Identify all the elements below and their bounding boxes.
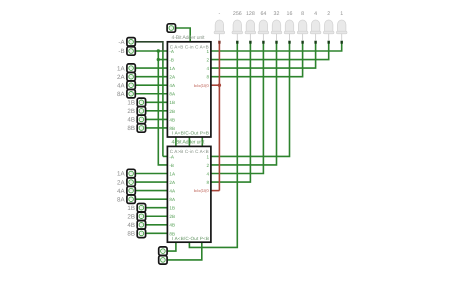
svg-text:2A: 2A xyxy=(169,75,176,80)
svg-text:2B: 2B xyxy=(169,214,175,219)
svg-text:64: 64 xyxy=(260,11,266,17)
pin 8A xyxy=(127,90,135,98)
svg-text:2: 2 xyxy=(206,163,209,168)
svg-text:2: 2 xyxy=(327,11,330,17)
junction -B/U1-B xyxy=(157,58,160,61)
pin 8A xyxy=(127,195,135,203)
svg-text:4A: 4A xyxy=(117,82,125,89)
svg-text:4A: 4A xyxy=(117,188,125,195)
svg-text:8A: 8A xyxy=(117,91,125,98)
svg-text:2B: 2B xyxy=(169,109,175,114)
svg-text:-B: -B xyxy=(118,48,124,55)
4-bit adder U2 body xyxy=(167,146,211,242)
svg-text:1A: 1A xyxy=(169,171,176,176)
svg-text:1B: 1B xyxy=(127,205,135,212)
svg-text:2B: 2B xyxy=(127,108,135,115)
svg-text:8: 8 xyxy=(301,11,304,17)
svg-text:32: 32 xyxy=(274,11,280,17)
junction -B/U1-A xyxy=(157,49,160,52)
pin 1B xyxy=(137,204,145,212)
svg-text:2B: 2B xyxy=(127,213,135,220)
svg-text:-B: -B xyxy=(169,163,174,168)
pin 4B xyxy=(137,115,145,123)
svg-text:256: 256 xyxy=(233,11,242,17)
svg-text:C A>B C-in C A<B: C A>B C-in C A<B xyxy=(170,149,209,154)
pin 1A xyxy=(127,64,135,72)
svg-text:8A: 8A xyxy=(169,197,176,202)
wire C-in pin to U1 top xyxy=(176,28,191,42)
LED D2 bulb xyxy=(233,20,241,31)
svg-text:2A: 2A xyxy=(169,180,176,185)
svg-text:4: 4 xyxy=(206,171,209,176)
cascade wires U1 bottom to U2 top xyxy=(175,137,177,146)
svg-text:2: 2 xyxy=(206,57,209,62)
pin P2 xyxy=(159,256,167,264)
pin -A xyxy=(127,38,135,46)
svg-text:8A: 8A xyxy=(117,196,125,203)
svg-text:1: 1 xyxy=(206,154,209,159)
svg-text:4A: 4A xyxy=(169,83,176,88)
svg-text:8: 8 xyxy=(206,180,209,185)
LED D8 bulb xyxy=(311,20,319,31)
LED D5 bulb xyxy=(272,20,280,31)
LED D9 bulb xyxy=(325,20,333,31)
4-bit adder U1 body xyxy=(167,42,211,137)
pin 2B xyxy=(137,212,145,220)
svg-text:1B: 1B xyxy=(169,100,175,105)
svg-text:1: 1 xyxy=(206,49,209,54)
svg-text:4B: 4B xyxy=(127,222,135,229)
LED D6 bulb xyxy=(285,20,293,31)
wires B inputs to U2 xyxy=(146,207,168,209)
svg-text:128: 128 xyxy=(246,11,255,17)
pin 2B xyxy=(137,107,145,115)
wire P1 to U2 bottom xyxy=(167,242,176,251)
svg-text:4-Bit Adder unit: 4-Bit Adder unit xyxy=(172,35,206,41)
svg-text:1B: 1B xyxy=(127,100,135,107)
svg-text:8B: 8B xyxy=(127,125,135,132)
pin 1B xyxy=(137,98,145,106)
svg-text:4B: 4B xyxy=(127,117,135,124)
LED D4 bulb xyxy=(259,20,267,31)
svg-text:1A: 1A xyxy=(169,66,176,71)
svg-text:1A: 1A xyxy=(117,171,125,178)
svg-text:-B: -B xyxy=(169,57,174,62)
pin 4A xyxy=(127,81,135,89)
svg-text:1B: 1B xyxy=(169,206,175,211)
wire -A net (dark) xyxy=(135,42,163,51)
svg-text:8B: 8B xyxy=(127,231,135,238)
svg-text:2A: 2A xyxy=(117,74,125,81)
svg-text:4: 4 xyxy=(314,11,317,17)
svg-text:-: - xyxy=(219,11,221,17)
svg-text:-A: -A xyxy=(118,39,125,46)
LED D1 bulb xyxy=(215,20,223,31)
sign net stubs (red) xyxy=(211,84,220,86)
svg-text:4B: 4B xyxy=(169,117,175,122)
LED D3 bulb xyxy=(246,20,254,31)
svg-text:1A: 1A xyxy=(117,65,125,72)
svg-text:4-Bit Adder unit: 4-Bit Adder unit xyxy=(172,140,206,146)
junction red sign net xyxy=(218,84,221,87)
pin 8B xyxy=(137,229,145,237)
wire -A net vertical to U2 xyxy=(162,51,164,156)
svg-text:8B: 8B xyxy=(169,126,175,131)
svg-text:8: 8 xyxy=(206,75,209,80)
wire P2 to U2 bottom xyxy=(167,242,202,260)
U2 sum output wires to LEDs 16,32,64,128 xyxy=(211,43,290,156)
svg-text:2A: 2A xyxy=(117,179,125,186)
pin 8B xyxy=(137,124,145,132)
svg-text:I=/=(1/(0: I=/=(1/(0 xyxy=(194,83,210,88)
svg-text:4: 4 xyxy=(206,66,209,71)
pin 1A xyxy=(127,169,135,177)
svg-text:8B: 8B xyxy=(169,231,175,236)
pin 2A xyxy=(127,73,135,81)
svg-text:I A<B/C-Out P<B: I A<B/C-Out P<B xyxy=(172,236,209,241)
LED drop wire sign (red) xyxy=(218,43,220,190)
svg-text:8A: 8A xyxy=(169,92,176,97)
pin -B xyxy=(127,47,135,55)
LED D7 bulb xyxy=(298,20,306,31)
carry-out U2 to LED 256 xyxy=(189,43,237,247)
pin 4B xyxy=(137,221,145,229)
pin 2A xyxy=(127,178,135,186)
pin Cin xyxy=(167,24,175,32)
svg-text:1: 1 xyxy=(340,11,343,17)
svg-text:I=/=(1/(0: I=/=(1/(0 xyxy=(194,188,210,193)
pin 4A xyxy=(127,186,135,194)
svg-text:I A<B/C-Out P<B: I A<B/C-Out P<B xyxy=(172,131,209,136)
wires B inputs to U1 xyxy=(146,101,168,103)
pin P1 xyxy=(159,247,167,255)
wires A inputs to U2 xyxy=(135,173,167,175)
svg-text:4B: 4B xyxy=(169,223,175,228)
U1 sum output wires to LEDs 1,2,4,8 xyxy=(211,43,342,51)
svg-text:4A: 4A xyxy=(169,189,176,194)
wire -B net xyxy=(135,50,167,52)
LED D10 bulb xyxy=(338,20,346,31)
svg-text:C A>B C-in C A<B: C A>B C-in C A<B xyxy=(170,44,209,49)
svg-text:16: 16 xyxy=(287,11,293,17)
wires A inputs to U1 xyxy=(135,67,167,69)
